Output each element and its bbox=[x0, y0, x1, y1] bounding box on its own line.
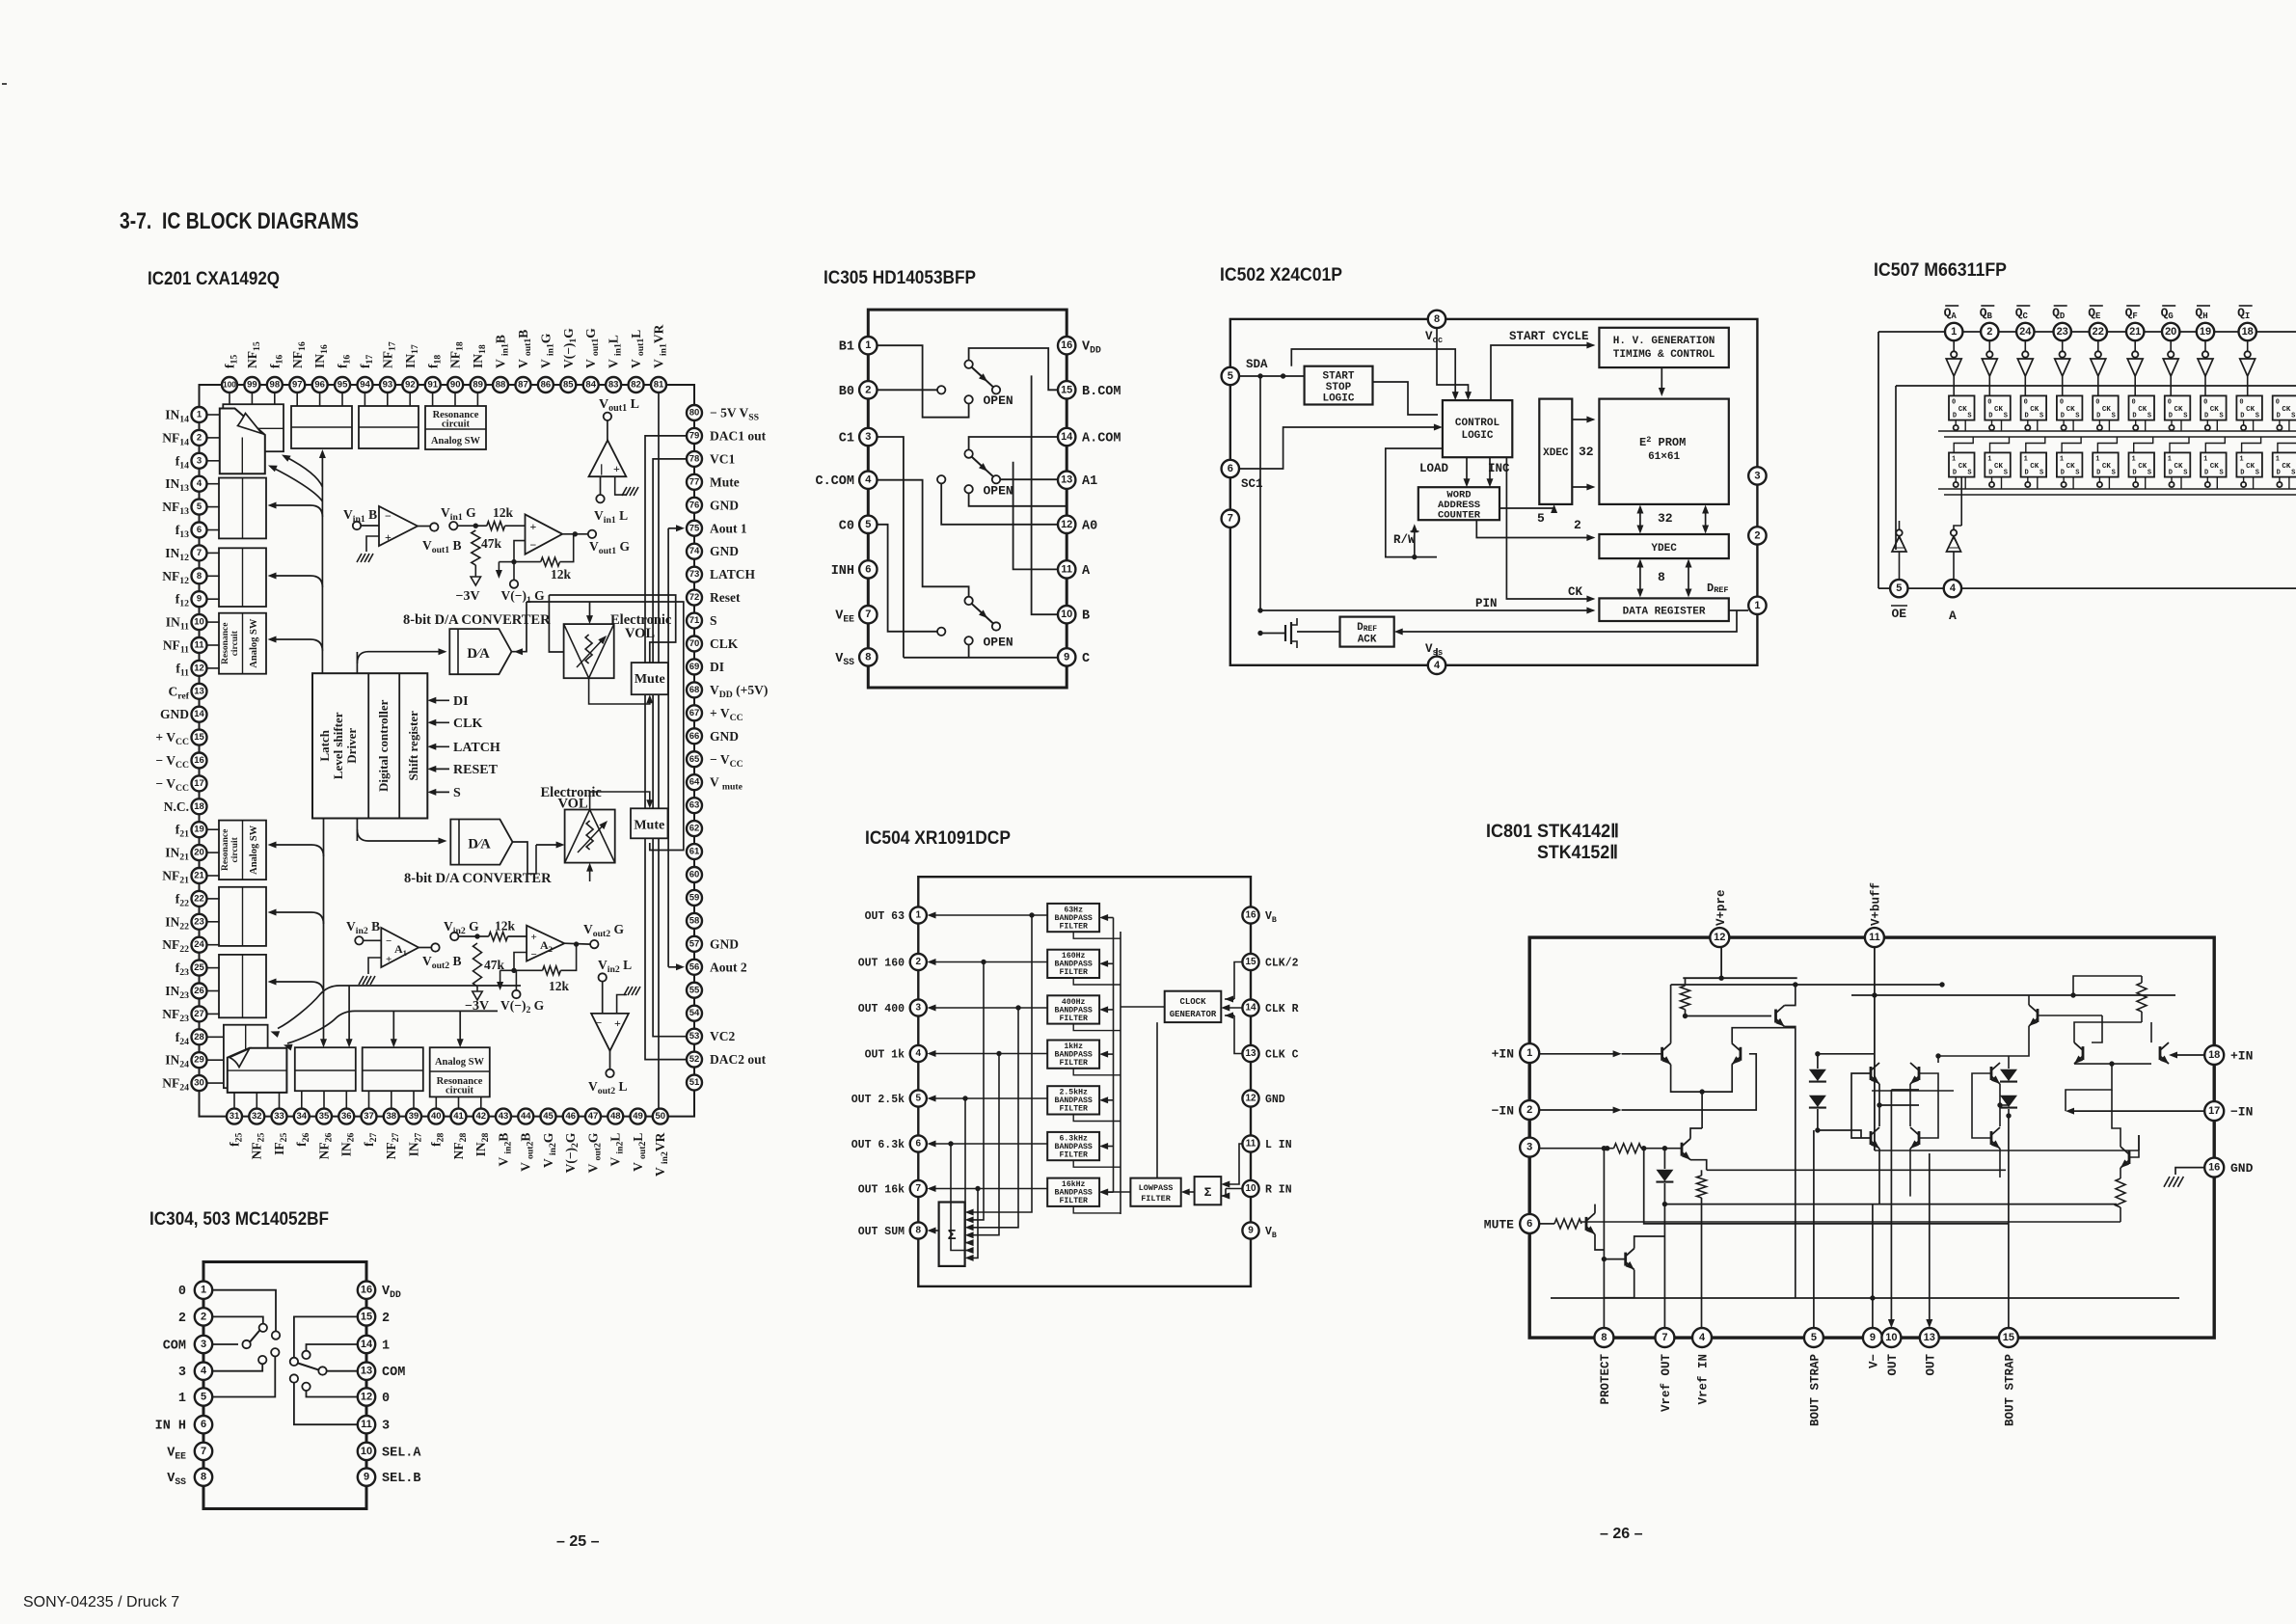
IC201 Analog SW / Resonance circuit box (pins 40-42) bbox=[430, 1047, 490, 1096]
svg-text:2: 2 bbox=[865, 384, 871, 395]
IC502 MOSFET bbox=[1257, 618, 1339, 648]
svg-text:C0: C0 bbox=[839, 519, 854, 533]
IC507 pin 23 (QD) bbox=[2052, 306, 2071, 340]
svg-text:NF23​: NF23​ bbox=[162, 1007, 189, 1024]
wire right bus E2 to Mute2 bottom bbox=[527, 602, 684, 851]
wire bottom box stub bbox=[345, 1091, 347, 1108]
svg-text:14: 14 bbox=[361, 1339, 373, 1350]
IC504 filter input bus bbox=[1099, 914, 1113, 1196]
IC504 wire OUT line 3 bbox=[928, 1005, 1048, 1232]
IC504 pin 4 (OUT 1k) bbox=[865, 1045, 927, 1062]
IC801 Vref transistor Q5 bbox=[1682, 1128, 1707, 1170]
IC201 bottom page-curl box (pins 31-33) bbox=[228, 1048, 287, 1093]
svg-text:LATCH: LATCH bbox=[453, 741, 500, 755]
IC305 chip outline bbox=[868, 310, 1067, 688]
svg-text:19: 19 bbox=[2200, 326, 2211, 338]
IC502 wire Vcc into control logic bbox=[1437, 328, 1472, 400]
svg-text:6: 6 bbox=[865, 563, 871, 575]
svg-text:GND: GND bbox=[710, 729, 739, 744]
svg-text:2: 2 bbox=[1574, 518, 1581, 532]
IC201 pin 13 (Cref) bbox=[169, 684, 207, 702]
svg-text:CK: CK bbox=[2102, 406, 2112, 414]
IC201 Resonance circuit / Analog SW box (pins 91-89) bbox=[425, 406, 486, 449]
svg-text:Resonance: Resonance bbox=[221, 829, 230, 871]
svg-text:Analog SW: Analog SW bbox=[435, 1057, 485, 1068]
wire mid rail A bbox=[1662, 1202, 2117, 1206]
IC502 wire HV gen to E2PROM bbox=[1659, 367, 1665, 396]
svg-text:CK: CK bbox=[2030, 406, 2039, 414]
IC201 pin 76 (right) bbox=[687, 498, 739, 513]
wire bottom rail bbox=[1551, 1297, 2179, 1299]
svg-text:28: 28 bbox=[194, 1032, 204, 1042]
IC201 pin 100 (top) bbox=[222, 355, 240, 392]
IC304 pin 14 bbox=[358, 1336, 390, 1354]
IC201 pin 46 (bottom) bbox=[563, 1109, 581, 1174]
svg-text:9: 9 bbox=[1064, 651, 1069, 663]
IC201 pin 49 (bottom) bbox=[631, 1109, 649, 1172]
IC507 pin 18 (QI) bbox=[2237, 306, 2256, 340]
svg-text:OUT SUM: OUT SUM bbox=[858, 1226, 905, 1238]
diode pair D4 D5 right bbox=[1935, 1053, 2017, 1118]
wire op-amp B1 + input to ground bbox=[366, 536, 379, 552]
wire IC201 pin 20 stub bbox=[207, 852, 220, 853]
svg-text:D: D bbox=[2061, 469, 2065, 476]
svg-text:1: 1 bbox=[1526, 1047, 1532, 1059]
svg-text:1: 1 bbox=[1754, 600, 1760, 611]
svg-text:21: 21 bbox=[194, 871, 204, 881]
wire bottom box stub bbox=[480, 1096, 482, 1108]
IC305 pin 5 bbox=[839, 516, 878, 534]
svg-text:IN17​: IN17​ bbox=[403, 344, 420, 368]
svg-text:8: 8 bbox=[865, 651, 871, 663]
IC304 pin 5 bbox=[178, 1388, 212, 1406]
IC201 pin 18 (N.C.) bbox=[164, 798, 207, 814]
svg-text:13: 13 bbox=[361, 1366, 372, 1377]
svg-text:IN14​: IN14​ bbox=[165, 408, 189, 425]
IC507 flip-flop row1 J bbox=[2273, 395, 2296, 431]
svg-text:8: 8 bbox=[201, 1472, 206, 1483]
IC504 pin 8 (OUT SUM) bbox=[858, 1222, 927, 1238]
svg-text:D: D bbox=[2169, 469, 2173, 476]
IC507 pin 19 (QH) bbox=[2195, 306, 2214, 340]
IC201 pin 17 (− VCC) bbox=[155, 775, 206, 794]
svg-text:Vin2​ B: Vin2​ B bbox=[346, 919, 380, 936]
svg-text:6: 6 bbox=[916, 1139, 922, 1150]
svg-text:NF13​: NF13​ bbox=[162, 500, 189, 517]
svg-text:– 26 –: – 26 – bbox=[1600, 1526, 1643, 1542]
IC201 pin 63 (right) bbox=[687, 798, 702, 813]
svg-text:NF25​: NF25​ bbox=[250, 1132, 267, 1159]
IC305 pin 12 bbox=[1058, 516, 1097, 534]
svg-text:IC507 M66311FP: IC507 M66311FP bbox=[1874, 260, 2007, 281]
svg-text:V(−)1​G: V(−)1​G bbox=[561, 328, 579, 368]
IC801 input diff pair right bbox=[2066, 1015, 2169, 1111]
svg-text:CLK C: CLK C bbox=[1265, 1049, 1299, 1062]
wire horizontal arrows into left boxes lower bbox=[268, 842, 324, 857]
IC502 pin 1 bbox=[1748, 597, 1766, 614]
wire bottom box stub bbox=[256, 1093, 257, 1109]
svg-text:70: 70 bbox=[689, 638, 700, 649]
svg-text:OE: OE bbox=[1891, 607, 1906, 621]
svg-text:62: 62 bbox=[689, 824, 700, 834]
svg-text:Analog SW: Analog SW bbox=[249, 825, 259, 875]
svg-text:Mute: Mute bbox=[634, 819, 664, 833]
svg-text:CK: CK bbox=[2102, 463, 2112, 471]
IC305 pin 9 bbox=[1058, 648, 1090, 666]
wire IC201 pin 19 stub bbox=[207, 828, 220, 830]
IC507 flip-flop row1 D bbox=[2057, 395, 2083, 431]
IC502 DATA REGISTER block bbox=[1599, 598, 1728, 621]
IC504 clock bus bbox=[1073, 932, 1121, 1214]
svg-text:f25​: f25​ bbox=[228, 1132, 245, 1146]
svg-text:D: D bbox=[1988, 412, 1992, 420]
wire IC201 pin 8 stub bbox=[207, 575, 220, 577]
svg-text:D: D bbox=[1953, 412, 1957, 420]
svg-text:1: 1 bbox=[2203, 455, 2207, 463]
svg-text:−3V: −3V bbox=[456, 589, 480, 604]
IC305 switch A arm bbox=[972, 457, 994, 477]
svg-text:33: 33 bbox=[274, 1111, 284, 1122]
IC801 mute transistor Q7 bbox=[1602, 1236, 1665, 1298]
svg-text:B0: B0 bbox=[839, 385, 854, 399]
wire pin 10 output arrow bbox=[1888, 1090, 1919, 1328]
svg-text:1: 1 bbox=[916, 910, 922, 921]
svg-text:−: − bbox=[385, 509, 392, 523]
IC502 DREF ACK block bbox=[1340, 617, 1394, 647]
svg-text:circuit: circuit bbox=[442, 420, 470, 430]
IC801 output stage left lower bbox=[1870, 1131, 1873, 1145]
svg-text:Vout2​ L: Vout2​ L bbox=[588, 1079, 628, 1096]
IC502 pin 7 bbox=[1222, 510, 1239, 528]
svg-text:QH: QH bbox=[2195, 306, 2207, 321]
IC304 pin 2 bbox=[178, 1308, 212, 1326]
IC502 wire Dref to ACK box bbox=[1394, 610, 1737, 636]
svg-text:D: D bbox=[2204, 469, 2208, 476]
svg-text:QE: QE bbox=[2088, 306, 2101, 321]
svg-text:Analog SW: Analog SW bbox=[431, 436, 481, 447]
svg-text:f11​: f11​ bbox=[176, 661, 189, 678]
wire pin 81 Vin1VR vertical to pin 50 bbox=[658, 392, 660, 1109]
IC504 wire OUT line 5 bbox=[928, 1096, 1048, 1247]
svg-text:FILTER: FILTER bbox=[1059, 1105, 1088, 1114]
terminal V(-)2G bbox=[497, 970, 545, 1015]
svg-text:V in2​L: V in2​L bbox=[608, 1133, 626, 1167]
svg-text:OUT 63: OUT 63 bbox=[865, 910, 905, 923]
IC305 pin 15 bbox=[1058, 381, 1121, 399]
svg-text:V in1​B: V in1​B bbox=[494, 335, 511, 368]
svg-text:CLK: CLK bbox=[710, 636, 739, 651]
svg-text:65: 65 bbox=[689, 754, 700, 765]
svg-text:B.COM: B.COM bbox=[1082, 385, 1121, 399]
IC801 pin 1 +IN bbox=[1492, 1043, 1540, 1063]
svg-text:R IN: R IN bbox=[1265, 1184, 1292, 1197]
svg-text:NF15​: NF15​ bbox=[245, 341, 262, 368]
IC504 small sum block bbox=[1195, 1177, 1222, 1204]
svg-text:10: 10 bbox=[1061, 609, 1072, 620]
ground (op-amp L2) bbox=[624, 987, 629, 995]
svg-text:V−: V− bbox=[1867, 1354, 1880, 1368]
svg-text:95: 95 bbox=[338, 380, 348, 391]
svg-text:f23​: f23​ bbox=[176, 961, 189, 978]
IC801 pin 8 PROTECT bbox=[1594, 1328, 1613, 1405]
IC304 chip outline bbox=[203, 1262, 366, 1509]
IC304 right switch contacts bbox=[290, 1351, 327, 1391]
svg-text:OPEN: OPEN bbox=[984, 484, 1013, 499]
wire IC201 pin 21 stub bbox=[207, 875, 220, 877]
svg-text:f18​: f18​ bbox=[425, 355, 443, 368]
svg-text:91: 91 bbox=[427, 380, 438, 391]
svg-text:QD: QD bbox=[2052, 306, 2066, 321]
IC201 pin 10 (IN11) bbox=[166, 614, 207, 633]
IC201 control line RESET bbox=[427, 763, 498, 777]
IC305 pin 3 bbox=[839, 428, 878, 447]
svg-text:+: + bbox=[385, 530, 392, 544]
IC504 pin 16 bbox=[1242, 907, 1277, 925]
svg-text:3: 3 bbox=[178, 1366, 186, 1380]
svg-text:16: 16 bbox=[2208, 1162, 2220, 1174]
svg-text:V out1​L: V out1​L bbox=[629, 330, 646, 368]
svg-text:V in1​G: V in1​G bbox=[538, 333, 555, 368]
svg-text:5: 5 bbox=[916, 1094, 922, 1104]
svg-text:5: 5 bbox=[1896, 582, 1902, 594]
svg-text:NF11​: NF11​ bbox=[163, 638, 189, 656]
svg-text:IN21​: IN21​ bbox=[165, 846, 189, 863]
svg-text:Resonance: Resonance bbox=[221, 623, 230, 664]
svg-text:32: 32 bbox=[252, 1111, 262, 1122]
svg-text:D⁄A: D⁄A bbox=[468, 837, 491, 853]
svg-text:42: 42 bbox=[475, 1111, 486, 1122]
svg-text:5: 5 bbox=[197, 501, 203, 512]
svg-text:COUNTER: COUNTER bbox=[1438, 510, 1481, 522]
IC201 pin 67 (right) bbox=[687, 705, 743, 723]
svg-text:16: 16 bbox=[1061, 339, 1072, 351]
svg-text:8: 8 bbox=[197, 571, 202, 582]
svg-text:75: 75 bbox=[689, 523, 700, 533]
IC305 pin 1 bbox=[839, 337, 878, 355]
IC201 pin 97 (top) bbox=[289, 341, 308, 392]
svg-text:FILTER: FILTER bbox=[1059, 1015, 1088, 1023]
svg-text:67: 67 bbox=[689, 708, 700, 718]
svg-text:Σ: Σ bbox=[948, 1228, 957, 1244]
svg-text:D: D bbox=[2061, 412, 2065, 420]
IC504 pin 12 bbox=[1242, 1090, 1284, 1106]
svg-text:80: 80 bbox=[689, 408, 700, 419]
svg-text:CLK: CLK bbox=[453, 717, 482, 731]
D/A converter 1 block bbox=[449, 629, 511, 674]
svg-text:− VCC​: − VCC​ bbox=[710, 752, 743, 770]
svg-text:73: 73 bbox=[689, 569, 700, 580]
IC304 right switch arm bbox=[298, 1364, 318, 1370]
svg-text:−3V: −3V bbox=[465, 999, 489, 1014]
IC504 2.5kHz bandpass filter block bbox=[1047, 1086, 1099, 1114]
svg-text:IN12​: IN12​ bbox=[165, 546, 189, 563]
resistor R-pre bbox=[1681, 978, 1690, 1018]
svg-text:− VCC​: − VCC​ bbox=[155, 776, 189, 794]
IC507 column A long vertical bbox=[1960, 477, 1962, 526]
IC504 wire CLK R pin 14 bbox=[1221, 1005, 1242, 1012]
IC201 pin 23 (IN22) bbox=[165, 914, 206, 933]
svg-text:S: S bbox=[2147, 469, 2151, 476]
IC504 CLOCK GENERATOR block bbox=[1165, 991, 1222, 1022]
svg-text:16: 16 bbox=[1245, 910, 1256, 921]
svg-text:circuit: circuit bbox=[230, 836, 240, 862]
wire central block bottom to D/A2 bbox=[356, 818, 358, 841]
IC201 left inner box bbox=[219, 821, 266, 880]
svg-text:− VCC​: − VCC​ bbox=[155, 753, 189, 771]
svg-text:V in1​L: V in1​L bbox=[607, 335, 624, 368]
IC201 pin 85 (top) bbox=[560, 328, 579, 392]
svg-text:8: 8 bbox=[916, 1226, 922, 1236]
svg-text:L IN: L IN bbox=[1265, 1139, 1292, 1151]
IC201 pin 56 (right) bbox=[687, 960, 747, 975]
svg-text:MUTE: MUTE bbox=[1484, 1217, 1514, 1232]
svg-text:f26​: f26​ bbox=[294, 1132, 311, 1146]
resistor 47k to -3V bbox=[456, 530, 502, 604]
svg-text:ACK: ACK bbox=[1358, 635, 1377, 646]
wire bottom box stub bbox=[458, 1096, 460, 1108]
IC504 wire OUT line 4 bbox=[928, 1050, 1048, 1238]
svg-text:A0: A0 bbox=[1082, 519, 1097, 533]
svg-text:QC: QC bbox=[2015, 306, 2029, 321]
svg-text:15: 15 bbox=[361, 1311, 372, 1322]
IC201 pin 94 (top) bbox=[358, 355, 376, 392]
svg-text:29: 29 bbox=[194, 1055, 204, 1066]
IC801 rail V+buff bbox=[1851, 947, 2175, 1150]
svg-text:17: 17 bbox=[194, 778, 204, 789]
svg-text:V out2​B: V out2​B bbox=[519, 1133, 536, 1172]
wire pin stub to top box bbox=[341, 392, 343, 406]
svg-text:48: 48 bbox=[610, 1111, 621, 1122]
IC801 pin 13 OUT bbox=[1920, 1328, 1939, 1376]
IC504 6.3kHz bandpass filter block bbox=[1047, 1132, 1099, 1160]
IC507 pin 1 (QA) bbox=[1944, 306, 1963, 340]
svg-text:10: 10 bbox=[194, 617, 204, 628]
svg-text:OUT 2.5k: OUT 2.5k bbox=[851, 1094, 905, 1106]
svg-text:IN27​: IN27​ bbox=[407, 1132, 424, 1156]
svg-text:CK: CK bbox=[2138, 463, 2147, 471]
IC201 pin 42 (bottom) bbox=[473, 1109, 492, 1157]
IC507 flip-flop row1 E bbox=[2093, 395, 2119, 431]
svg-text:– 25 –: – 25 – bbox=[556, 1533, 600, 1550]
op-amp A-B1 input terminal Vin1B bbox=[343, 507, 379, 529]
svg-text:S: S bbox=[453, 786, 461, 800]
svg-text:45: 45 bbox=[543, 1111, 554, 1122]
svg-text:10: 10 bbox=[361, 1446, 372, 1457]
svg-text:CK: CK bbox=[1958, 406, 1968, 414]
Mute box 2 bbox=[631, 808, 668, 838]
IC502 pin 4 Vss bbox=[1425, 642, 1445, 674]
svg-text:49: 49 bbox=[633, 1111, 643, 1122]
svg-text:Latch: Latch bbox=[317, 729, 332, 761]
wire horizontal arrows into left boxes upper bbox=[268, 502, 323, 518]
svg-text:CK: CK bbox=[1994, 463, 2004, 471]
svg-text:STK4152Ⅱ: STK4152Ⅱ bbox=[1537, 843, 1618, 863]
svg-text:0: 0 bbox=[2239, 398, 2243, 406]
svg-text:1: 1 bbox=[2168, 455, 2172, 463]
resistor 12k (input) bbox=[475, 505, 525, 530]
svg-text:DI: DI bbox=[710, 660, 724, 674]
svg-text:0: 0 bbox=[178, 1285, 186, 1299]
svg-text:CK: CK bbox=[2282, 406, 2291, 414]
IC201 pin 91 (top) bbox=[425, 355, 444, 392]
svg-text:31: 31 bbox=[230, 1111, 240, 1122]
svg-text:+ VCC​: + VCC​ bbox=[710, 706, 743, 723]
IC201 pin 3 (f14) bbox=[176, 453, 207, 472]
svg-text:CK: CK bbox=[2066, 463, 2076, 471]
svg-text:IN23​: IN23​ bbox=[165, 984, 189, 1001]
svg-text:FILTER: FILTER bbox=[1059, 968, 1088, 977]
IC504 pin 13 bbox=[1242, 1045, 1298, 1062]
IC504 wire sum to lowpass bbox=[1181, 1189, 1195, 1196]
svg-text:78: 78 bbox=[689, 453, 700, 464]
svg-text:START: START bbox=[1322, 371, 1354, 383]
IC507 flip-flop row2 J bbox=[2273, 437, 2296, 489]
svg-text:4: 4 bbox=[865, 474, 872, 486]
svg-text:36: 36 bbox=[341, 1111, 352, 1122]
IC201 pin 29 (IN24) bbox=[165, 1052, 206, 1070]
IC507 row1 bus lines bbox=[1938, 431, 2296, 437]
IC201 control line CLK bbox=[427, 717, 482, 731]
svg-text:10: 10 bbox=[1885, 1332, 1897, 1343]
IC201 pin 70 (right) bbox=[687, 636, 739, 652]
svg-text:8: 8 bbox=[1601, 1332, 1607, 1343]
IC507 left inner vertical bbox=[1895, 386, 1897, 550]
IC201 pin 1 (IN14) bbox=[165, 407, 206, 425]
svg-text:S: S bbox=[2183, 412, 2187, 420]
svg-text:CK: CK bbox=[2210, 406, 2220, 414]
IC504 wire lowpass to 16k filter bbox=[1099, 1189, 1130, 1196]
svg-text:Vref IN: Vref IN bbox=[1697, 1354, 1711, 1405]
svg-text:Vref OUT: Vref OUT bbox=[1660, 1354, 1673, 1413]
IC304 left switch arm bbox=[250, 1331, 259, 1342]
svg-text:37: 37 bbox=[364, 1111, 374, 1122]
svg-text:1: 1 bbox=[2132, 455, 2136, 463]
wire pin 9 riser V- bbox=[1870, 1204, 1875, 1328]
svg-text:CLK R: CLK R bbox=[1265, 1003, 1299, 1015]
wire op-amp A2 feedback bbox=[511, 953, 527, 974]
svg-text:5: 5 bbox=[1537, 511, 1545, 526]
svg-text:V(−)2​G: V(−)2​G bbox=[563, 1132, 581, 1173]
IC305 switch C wires bbox=[878, 437, 1059, 658]
svg-text:CK: CK bbox=[1958, 463, 1968, 471]
IC304 pin 9 bbox=[358, 1468, 421, 1486]
svg-text:NF22​: NF22​ bbox=[162, 937, 189, 955]
wire bottom box stub bbox=[323, 1091, 325, 1108]
IC305 pin 4 bbox=[815, 472, 877, 490]
IC201 pin 98 (top) bbox=[267, 355, 285, 392]
svg-text:Vout1​ L: Vout1​ L bbox=[599, 397, 639, 414]
IC201 pin 2 (NF14) bbox=[162, 430, 206, 448]
IC305 switch C contacts bbox=[937, 597, 1000, 645]
svg-text:71: 71 bbox=[689, 615, 700, 626]
svg-text:82: 82 bbox=[631, 380, 641, 391]
ground (op-amp L1) bbox=[622, 487, 627, 496]
wire VOL1 left edge stub bbox=[549, 595, 563, 652]
IC504 wire OUT line 1 bbox=[928, 912, 1048, 1216]
IC507 flip-flop row2 H bbox=[2201, 437, 2227, 489]
svg-text:1: 1 bbox=[2239, 455, 2243, 463]
wire pin stub to top box bbox=[454, 392, 456, 406]
wire GND pin16 bbox=[2175, 1168, 2204, 1175]
IC502 YDEC block bbox=[1599, 534, 1728, 558]
wire vertical bus a (lower segment) bbox=[320, 818, 327, 1047]
IC201 pin 37 (bottom) bbox=[362, 1109, 380, 1147]
svg-text:8-bit D/A CONVERTER: 8-bit D/A CONVERTER bbox=[403, 612, 551, 628]
svg-text:1: 1 bbox=[178, 1392, 186, 1406]
Electronic VOL label 1 bbox=[610, 612, 672, 641]
IC801 pin 10 OUT bbox=[1881, 1328, 1901, 1376]
svg-text:f22​: f22​ bbox=[176, 891, 189, 908]
